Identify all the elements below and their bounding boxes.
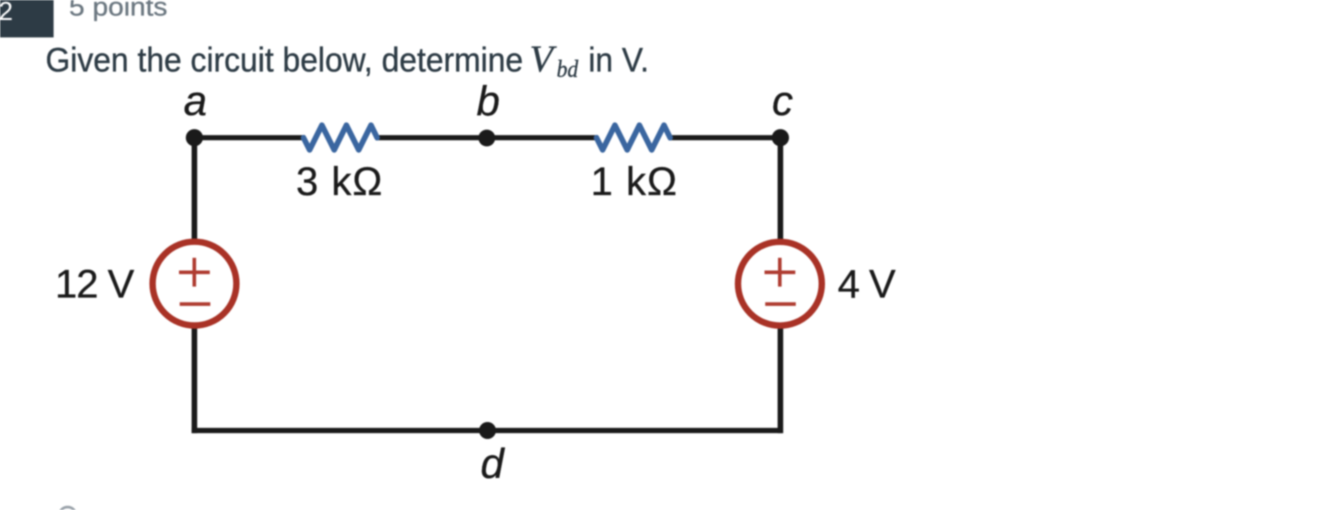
question header badge — [0, 0, 54, 37]
resistor R2 1 kOhm — [597, 125, 671, 150]
svg-text:bd: bd — [557, 57, 580, 83]
svg-text:b: b — [477, 78, 500, 125]
svg-text:4 V: 4 V — [838, 262, 896, 306]
node a — [186, 129, 203, 146]
node label b — [477, 78, 500, 125]
value label 12 V — [55, 262, 135, 306]
value label 4 V — [838, 262, 896, 306]
answer radio button — [59, 507, 76, 510]
value label 1 kOhm — [591, 160, 678, 204]
svg-text:2: 2 — [0, 0, 13, 26]
voltage source V1 12 V — [153, 242, 237, 326]
node label c — [772, 77, 793, 124]
wire top: R2 to node c — [669, 135, 781, 140]
svg-text:Given the circuit below, deter: Given the circuit below, determine — [46, 42, 524, 80]
wire top: R1 to node b — [376, 135, 487, 140]
svg-text:c: c — [772, 77, 793, 124]
node b — [478, 130, 495, 147]
svg-text:5 points: 5 points — [69, 0, 168, 22]
wire top: node a to R1 — [194, 135, 305, 140]
voltage source V2 4 V — [738, 242, 822, 326]
resistor R1 3 kOhm — [304, 125, 378, 150]
wire top: node b to R2 — [487, 135, 598, 140]
wire right rail: node c to V2 — [778, 138, 784, 241]
wire left rail: V1 to bottom — [192, 327, 198, 433]
svg-text:in V.: in V. — [588, 42, 649, 80]
points label — [69, 0, 168, 22]
question text — [46, 39, 649, 83]
value label 3 kOhm — [296, 160, 383, 204]
svg-text:a: a — [184, 77, 207, 124]
wire bottom: left corner to node d to right corner — [192, 428, 783, 433]
node label a — [184, 77, 207, 124]
wire left rail: node a to V1 — [192, 138, 198, 241]
svg-text:V: V — [530, 39, 558, 81]
node d — [479, 422, 496, 439]
svg-text:1 kΩ: 1 kΩ — [591, 160, 678, 204]
svg-text:d: d — [481, 440, 506, 487]
svg-text:3 kΩ: 3 kΩ — [296, 160, 383, 204]
svg-text:12 V: 12 V — [55, 262, 135, 306]
node label d — [481, 440, 506, 487]
node c — [772, 129, 789, 146]
wire right rail: V2 to bottom — [778, 327, 784, 433]
